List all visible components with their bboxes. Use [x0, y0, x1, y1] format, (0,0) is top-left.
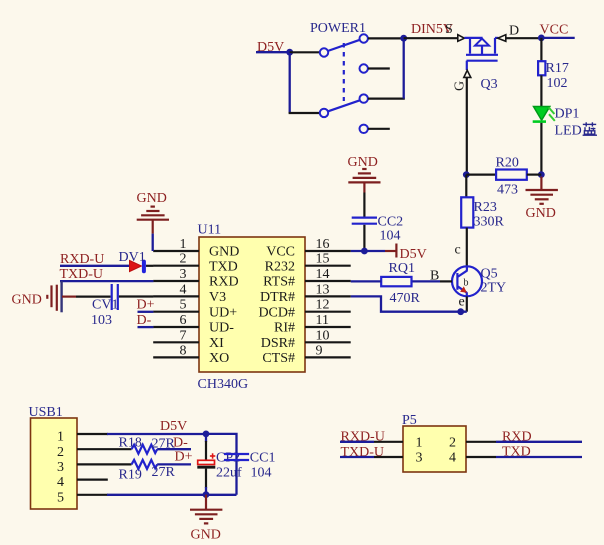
svg-text:LED: LED [555, 124, 582, 139]
wire RXD stub [496, 441, 582, 443]
svg-text:VCC: VCC [266, 245, 295, 260]
svg-text:16: 16 [316, 237, 330, 252]
transistor Q3 S pin arrow [458, 35, 465, 42]
transistor Q3 D pin arrow [498, 35, 506, 42]
svg-text:RI#: RI# [274, 321, 295, 336]
wire D5V to switch pole 1 [290, 51, 320, 53]
svg-text:5: 5 [180, 298, 187, 313]
wire D5V down [289, 53, 291, 113]
pin 12 line [305, 311, 351, 313]
svg-text:U11: U11 [198, 223, 222, 238]
ground GND above U11 pin1 [137, 191, 170, 234]
node USB D5V [203, 431, 210, 438]
svg-text:c: c [455, 243, 461, 258]
svg-text:1: 1 [180, 237, 187, 252]
ground GND port left [12, 281, 77, 312]
pin 5 line [153, 311, 199, 313]
wire node to CC1 top [206, 434, 237, 495]
wire TXD-U to pin3 [60, 280, 153, 282]
wire pin16 to D5V port [351, 250, 385, 252]
svg-text:VCC: VCC [540, 23, 569, 38]
wire TXD-U stub P5 [340, 456, 374, 458]
resistor R20 [496, 170, 527, 180]
USB1 pin 1 line [77, 433, 108, 435]
pin 15 line [305, 265, 351, 267]
svg-text:XI: XI [209, 336, 224, 351]
svg-text:TXD: TXD [209, 259, 238, 274]
wire node to R23 [465, 175, 467, 198]
svg-text:DTR#: DTR# [260, 290, 295, 305]
svg-text:Q5: Q5 [481, 267, 498, 282]
capacitor CV1 [112, 284, 118, 310]
node R20 right [538, 171, 545, 178]
svg-text:5: 5 [57, 490, 64, 505]
svg-text:27R: 27R [152, 437, 176, 452]
wire Q3 gate down [466, 77, 468, 174]
pin 3 line [153, 280, 199, 282]
wire pin1 to D5V node [107, 433, 206, 435]
P5 pin 3 line [374, 456, 403, 458]
pin 8 line [153, 356, 199, 358]
svg-text:D+: D+ [175, 450, 193, 465]
USB1 pin 5 line [77, 494, 108, 496]
transistor Q5 [452, 266, 482, 296]
svg-text:R20: R20 [496, 156, 519, 171]
svg-text:D5V: D5V [160, 419, 187, 434]
svg-text:D-: D- [173, 436, 188, 451]
svg-text:D+: D+ [137, 298, 155, 313]
wire R18 to D- [157, 448, 191, 450]
svg-text:3: 3 [180, 267, 187, 282]
wire R19 to D+ [157, 463, 191, 465]
wire GND to pin1 [152, 234, 154, 251]
svg-text:V3: V3 [209, 290, 226, 305]
svg-text:GND: GND [209, 245, 239, 260]
wire R20 to node [527, 174, 542, 176]
connector P5 body [403, 426, 466, 472]
svg-text:11: 11 [316, 313, 329, 328]
node DIN5V [400, 35, 407, 42]
pin 6 line [153, 326, 199, 328]
svg-text:CC1: CC1 [250, 451, 276, 466]
svg-text:22uf: 22uf [216, 466, 242, 481]
svg-text:103: 103 [91, 313, 112, 328]
svg-text:3: 3 [416, 451, 423, 466]
power port D5V bar [395, 244, 397, 258]
svg-text:GND: GND [526, 206, 556, 221]
wire RQ1 to base [412, 280, 441, 282]
svg-text:102: 102 [547, 76, 568, 91]
wire GND to CC2 [363, 193, 365, 217]
pin 14 line [305, 280, 351, 282]
LED DP1 [533, 107, 555, 122]
wire node to R20 [466, 174, 496, 176]
pin 13 line [305, 295, 351, 297]
pin 7 line [153, 341, 199, 343]
svg-text:3: 3 [57, 460, 64, 475]
wire DIN5V riser [403, 38, 405, 98]
resistor R19 zigzag [132, 460, 158, 469]
svg-text:G: G [453, 81, 468, 91]
svg-text:RXD: RXD [209, 275, 239, 290]
svg-text:7: 7 [180, 328, 187, 343]
USB1 pin 3 line [77, 463, 132, 465]
ground GND below USB [190, 495, 222, 543]
svg-text:R17: R17 [546, 61, 569, 76]
switch throw stub mid [368, 67, 390, 69]
P5 pin 1 line [374, 441, 403, 443]
wire D+ stub [138, 311, 154, 313]
wire RXD-U to DV1 [60, 265, 130, 267]
wire R17 to DP1 [540, 75, 542, 107]
capacitor CP2 plus sign [210, 453, 215, 458]
svg-text:DV1: DV1 [119, 250, 146, 265]
wire VCC down to R17 [540, 38, 542, 61]
wire DTR to emitter [351, 296, 467, 311]
pin D line [506, 37, 540, 39]
wire switch to DIN5V node [368, 37, 404, 39]
svg-text:14: 14 [316, 267, 330, 282]
svg-text:2TY: 2TY [481, 281, 507, 296]
svg-text:UD+: UD+ [209, 305, 237, 320]
svg-text:GND: GND [12, 293, 42, 308]
wire pin5 to ground rail [107, 494, 237, 496]
pin 4 line [153, 295, 199, 297]
resistor R23 [461, 197, 473, 227]
svg-text:TXD: TXD [502, 445, 531, 460]
svg-text:CH340G: CH340G [198, 377, 249, 392]
power port D5V lead [385, 250, 396, 252]
node R20 left [463, 171, 470, 178]
svg-text:CP2: CP2 [216, 451, 240, 466]
svg-text:UD-: UD- [209, 321, 234, 336]
svg-text:4: 4 [57, 475, 64, 490]
switch POWER1 body [320, 34, 368, 133]
svg-text:XO: XO [209, 351, 229, 366]
IC U11 body [199, 237, 305, 372]
wire RXD-U stub P5 [340, 441, 374, 443]
svg-text:R18: R18 [119, 436, 142, 451]
svg-text:27R: 27R [152, 465, 176, 480]
pin 9 line [305, 356, 351, 358]
svg-text:9: 9 [316, 343, 323, 358]
svg-text:b: b [464, 278, 469, 289]
svg-text:DP1: DP1 [555, 107, 580, 122]
svg-text:473: 473 [497, 183, 518, 198]
wire CV1 to pin4 [119, 295, 153, 297]
node D5V junction [286, 49, 293, 56]
svg-text:10: 10 [316, 328, 330, 343]
P5 pin 2 line [466, 441, 496, 443]
node VCC [538, 35, 545, 42]
svg-text:GND: GND [191, 528, 221, 543]
pin Q5 emitter [466, 296, 468, 311]
svg-text:D: D [509, 24, 519, 39]
svg-text:CTS#: CTS# [262, 351, 295, 366]
P5 pin 4 line [466, 456, 496, 458]
node pin16 junction [361, 248, 368, 255]
svg-text:RQ1: RQ1 [389, 261, 415, 276]
svg-text:15: 15 [316, 252, 330, 267]
USB1 pin 2 line [77, 448, 132, 450]
svg-text:6: 6 [180, 313, 187, 328]
wire VCC right [541, 37, 574, 39]
svg-text:e: e [459, 295, 465, 310]
transistor Q3 body [464, 38, 498, 70]
svg-text:2: 2 [180, 252, 187, 267]
capacitor CP2 positive plate [198, 460, 215, 464]
wire GND to CV1 [76, 296, 111, 298]
svg-text:R23: R23 [474, 200, 497, 215]
svg-text:13: 13 [316, 282, 330, 297]
svg-text:TXD-U: TXD-U [60, 267, 104, 282]
svg-text:DCD#: DCD# [258, 305, 295, 320]
wire CC2 to pin16 [363, 225, 365, 251]
capacitor CC2 [352, 218, 377, 224]
svg-text:4: 4 [449, 451, 456, 466]
svg-text:DSR#: DSR# [261, 336, 295, 351]
wire R23 to Q5 collector [466, 228, 468, 267]
ground GND above CC2 [348, 155, 381, 193]
svg-text:4: 4 [180, 282, 187, 297]
svg-text:GND: GND [137, 191, 167, 206]
svg-text:POWER1: POWER1 [310, 21, 366, 36]
pin 1 line [153, 250, 199, 252]
svg-text:2: 2 [57, 445, 64, 460]
wire TXD stub [496, 456, 582, 458]
label CJK lan glyph [583, 122, 597, 135]
svg-text:2: 2 [449, 436, 456, 451]
resistor R18 zigzag [132, 445, 158, 454]
svg-text:330R: 330R [474, 215, 505, 230]
capacitor CP2 bottom lead [205, 469, 207, 488]
ground GND right of R20 [526, 177, 558, 222]
svg-text:CV1: CV1 [92, 298, 118, 313]
svg-text:104: 104 [251, 466, 272, 481]
node emitter junction [457, 308, 464, 315]
wire DIN5V to Q3 source [404, 37, 458, 39]
USB1 pin 4 stub [77, 479, 108, 481]
svg-text:1: 1 [57, 430, 64, 445]
wire DV1 to pin2 [146, 265, 153, 267]
svg-text:Q3: Q3 [481, 77, 498, 92]
transistor Q3 G pin arrow [464, 70, 471, 77]
svg-text:RXD: RXD [502, 430, 532, 445]
svg-text:S: S [445, 22, 453, 37]
wire to switch pole 2 [289, 112, 320, 114]
svg-text:RTS#: RTS# [263, 275, 295, 290]
pin 10 line [305, 341, 351, 343]
capacitor CP2 top lead [205, 434, 207, 442]
pin 2 line [153, 265, 199, 267]
svg-text:D-: D- [137, 313, 152, 328]
svg-text:104: 104 [380, 229, 401, 244]
wire pin14 to RQ1 [351, 280, 382, 282]
wire D- stub [138, 326, 154, 328]
resistor R17 [538, 61, 545, 75]
wire DP1 down [540, 123, 542, 175]
svg-text:8: 8 [180, 343, 187, 358]
capacitor CC1 [224, 454, 249, 460]
capacitor CP2 negative plate [197, 466, 215, 469]
wire D5V stub [256, 51, 290, 53]
svg-text:D5V: D5V [400, 247, 427, 262]
svg-text:1: 1 [416, 436, 423, 451]
svg-text:CC2: CC2 [378, 215, 404, 230]
resistor RQ1 [381, 277, 411, 286]
diode DV1 [130, 260, 144, 271]
switch throw stub bottom [368, 128, 390, 130]
svg-text:R232: R232 [265, 259, 295, 274]
connector USB1 body [31, 418, 78, 509]
pin 11 line [305, 326, 351, 328]
pin 16 line [305, 250, 351, 252]
node USB ground [203, 491, 210, 498]
pin Q5 base [440, 280, 452, 282]
svg-text:470R: 470R [390, 291, 421, 306]
wire switch pole2 to DIN5V riser [368, 97, 405, 99]
svg-text:GND: GND [348, 155, 378, 170]
svg-text:12: 12 [316, 298, 330, 313]
svg-text:R19: R19 [119, 468, 142, 483]
